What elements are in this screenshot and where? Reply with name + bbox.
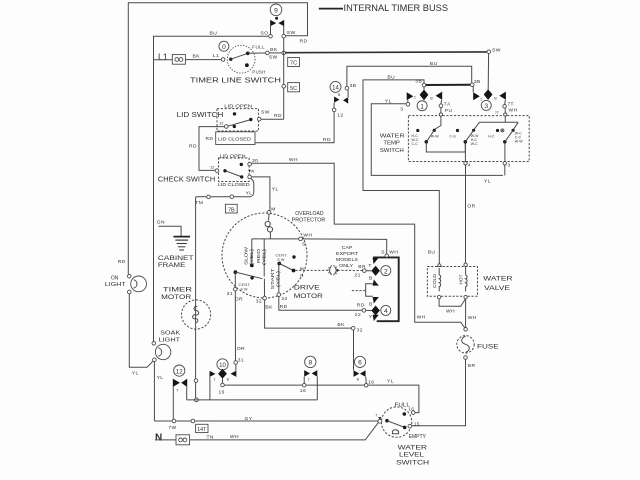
wire: vertical RD/SW wire from switch 9 down to lid switch xyxy=(283,38,285,119)
svg-text:Y: Y xyxy=(369,314,373,320)
wire: BK wire motor 32 to switch 6 xyxy=(265,300,352,328)
wire: WH neutral wire to water level switch xyxy=(190,423,379,441)
svg-text:B: B xyxy=(369,275,373,281)
svg-text:M: M xyxy=(271,207,276,213)
svg-text:31: 31 xyxy=(227,291,233,297)
wire: GY line from soak light to water level switch common xyxy=(154,416,378,431)
lamp ON LIGHT xyxy=(105,259,147,294)
wire: BU wire from inner left line to switch 9 SO terminal xyxy=(154,31,269,342)
svg-text:TN: TN xyxy=(207,434,214,440)
svg-text:SW: SW xyxy=(269,55,278,61)
winding SLOW xyxy=(244,239,255,267)
svg-text:BU: BU xyxy=(428,250,436,256)
svg-text:10: 10 xyxy=(219,363,226,369)
svg-text:SLOW: SLOW xyxy=(244,246,249,265)
svg-text:LID OPEN: LID OPEN xyxy=(220,153,246,158)
svg-text:FULL: FULL xyxy=(395,402,410,408)
label CAP EXPORT MODELS ONLY xyxy=(336,245,359,268)
label box LID CLOSED (lid switch) xyxy=(206,132,255,145)
svg-text:ON: ON xyxy=(111,275,119,281)
svg-text:YL: YL xyxy=(484,179,491,185)
temp switch unit 1 (PU) xyxy=(412,108,466,152)
svg-text:7W: 7W xyxy=(168,425,176,431)
terminal box 7B xyxy=(225,204,237,213)
svg-text:C-G: C-G xyxy=(449,134,456,138)
svg-text:RD: RD xyxy=(189,143,197,149)
svg-text:7B: 7B xyxy=(228,207,235,213)
label DRIVE MOTOR xyxy=(294,284,324,300)
svg-text:WH: WH xyxy=(509,108,518,114)
svg-text:BR: BR xyxy=(468,363,476,369)
svg-text:L1: L1 xyxy=(213,53,219,59)
svg-text:16: 16 xyxy=(368,379,374,385)
svg-text:(YEL): (YEL) xyxy=(249,248,254,265)
cent switch right xyxy=(276,254,306,278)
svg-text:WH: WH xyxy=(303,233,312,239)
wire: SW down to switch 3 xyxy=(487,54,489,90)
svg-text:OR: OR xyxy=(467,204,475,210)
svg-text:21: 21 xyxy=(355,273,361,279)
svg-text:HOT: HOT xyxy=(458,274,463,284)
overload protector xyxy=(265,207,325,239)
node S terminal of switch bank xyxy=(381,249,398,257)
svg-text:B: B xyxy=(369,301,373,307)
svg-text:LEVEL: LEVEL xyxy=(399,452,425,459)
wire: YL wire from switch 1 terminal 3 to temp switch terminal 3 xyxy=(371,99,505,185)
node L1 terminal and fuse link xyxy=(154,52,222,64)
svg-text:BR: BR xyxy=(358,264,366,270)
node TM terminal on timer motor wire xyxy=(195,195,210,206)
node 5C terminal circle xyxy=(282,84,286,88)
svg-text:2: 2 xyxy=(384,268,388,275)
wire: outer perimeter RD wire (top + left side) xyxy=(128,3,307,275)
svg-text:SW: SW xyxy=(240,287,248,291)
svg-text:16: 16 xyxy=(300,388,306,394)
svg-text:3B: 3B xyxy=(415,79,422,85)
svg-text:TEMP: TEMP xyxy=(383,141,400,147)
terminal box 14T xyxy=(196,424,208,433)
svg-text:7A: 7A xyxy=(444,102,451,108)
temp switch WH rail xyxy=(474,108,518,129)
svg-text:3B: 3B xyxy=(474,79,481,85)
capacitor dashed wire to switch 2 terminal xyxy=(295,266,362,275)
svg-text:3: 3 xyxy=(400,106,403,112)
wire: check switch W to overload M terminal xyxy=(251,177,278,211)
svg-text:YL: YL xyxy=(246,190,253,196)
svg-text:PUSH: PUSH xyxy=(252,70,265,76)
check switch xyxy=(158,153,258,187)
svg-text:BK: BK xyxy=(270,47,278,53)
water temp switch box xyxy=(408,116,529,162)
svg-text:SOAK: SOAK xyxy=(160,331,180,337)
lid switch xyxy=(177,104,284,132)
svg-text:TIMER: TIMER xyxy=(163,286,193,293)
svg-text:32: 32 xyxy=(357,328,363,334)
svg-text:W-W: W-W xyxy=(515,139,523,143)
svg-text:CAP: CAP xyxy=(342,245,353,250)
wire: YL 16 line from switch 10 to water level switch xyxy=(224,379,419,413)
wire: internal timer buss line xyxy=(286,51,488,54)
wire: check switch W curve down to timer motor line xyxy=(196,178,254,196)
timer switch 2 xyxy=(355,258,391,286)
wire: OR wire from switch 10 up to drive motor 31 xyxy=(234,291,245,371)
svg-text:12: 12 xyxy=(337,112,343,118)
svg-text:YL: YL xyxy=(385,99,392,105)
svg-text:YL: YL xyxy=(272,186,279,192)
svg-text:RD: RD xyxy=(357,303,365,309)
winding START xyxy=(270,265,288,309)
svg-text:GY: GY xyxy=(245,416,253,422)
svg-text:0: 0 xyxy=(222,44,226,51)
legend INTERNAL TIMER BUSS xyxy=(319,3,448,13)
wire: lid switch 12 terminal to check switch 12 xyxy=(189,127,225,171)
svg-text:SO: SO xyxy=(261,31,269,37)
svg-text:7C: 7C xyxy=(290,61,297,67)
svg-text:START: START xyxy=(270,268,275,289)
water level switch xyxy=(375,402,426,440)
label WATER VALVE xyxy=(483,276,513,293)
wire: YL wire soak light to 7W node on GY line xyxy=(154,362,163,422)
svg-text:L1: L1 xyxy=(158,52,168,62)
svg-text:FULL: FULL xyxy=(252,45,265,51)
svg-text:14T: 14T xyxy=(197,427,207,433)
svg-text:RD: RD xyxy=(300,39,308,45)
wire: timer motor wire down to junction xyxy=(195,197,197,400)
svg-text:BK: BK xyxy=(337,322,345,328)
svg-text:1: 1 xyxy=(420,103,424,110)
svg-text:W-W: W-W xyxy=(431,134,439,138)
svg-text:15: 15 xyxy=(414,421,420,426)
svg-text:YL: YL xyxy=(132,370,139,376)
water valve box xyxy=(427,267,477,297)
timer line switch xyxy=(219,41,286,75)
temp switch unit 3 xyxy=(488,129,523,168)
svg-text:FRAME: FRAME xyxy=(158,263,185,269)
svg-text:RED: RED xyxy=(256,249,261,263)
svg-text:BK: BK xyxy=(265,305,273,311)
svg-text:S: S xyxy=(302,242,306,248)
node motor terminal 32 xyxy=(256,279,273,311)
svg-text:DRIVE: DRIVE xyxy=(294,284,320,291)
svg-text:3B: 3B xyxy=(350,83,357,89)
svg-text:YL: YL xyxy=(387,379,394,385)
svg-text:12: 12 xyxy=(176,369,183,375)
svg-text:7T: 7T xyxy=(507,102,514,108)
svg-text:8: 8 xyxy=(308,360,312,367)
svg-text:N: N xyxy=(155,432,162,443)
svg-text:CABINET: CABINET xyxy=(158,256,194,262)
timer motor xyxy=(182,300,211,329)
svg-text:ONLY: ONLY xyxy=(339,263,353,268)
svg-text:WATER: WATER xyxy=(380,134,405,140)
node junction circle at bottom of timer motor wire xyxy=(195,398,199,402)
svg-text:MODELS: MODELS xyxy=(336,257,358,262)
svg-text:4: 4 xyxy=(468,163,471,168)
temp switch unit 2 xyxy=(449,129,479,168)
svg-text:OR: OR xyxy=(237,346,245,352)
svg-text:(YEL): (YEL) xyxy=(275,270,280,287)
wire: thick BU buss between 3B terminals of switches 1 and 3 xyxy=(426,84,471,86)
svg-text:LID CLOSED: LID CLOSED xyxy=(218,137,251,142)
svg-text:5C: 5C xyxy=(290,86,297,92)
lamp SOAK LIGHT xyxy=(152,331,181,362)
wire: OR wire from temp switch 4 to water valve HOT xyxy=(428,165,476,263)
ground cabinet frame xyxy=(157,220,190,250)
svg-text:MOTOR: MOTOR xyxy=(294,293,324,300)
svg-text:WH: WH xyxy=(389,249,398,255)
svg-text:(YEL): (YEL) xyxy=(261,248,266,265)
svg-text:CHECK SWITCH: CHECK SWITCH xyxy=(158,176,215,183)
svg-text:WATER: WATER xyxy=(483,276,513,283)
terminal box 5C xyxy=(288,83,300,92)
node terminal circle on timer motor wire xyxy=(194,379,198,383)
svg-text:W-C: W-C xyxy=(471,142,478,146)
svg-text:6: 6 xyxy=(358,360,362,367)
wire: BU wire from switch 1 3B down to water valve COLD xyxy=(363,75,439,263)
svg-text:LID OPEN: LID OPEN xyxy=(224,104,252,109)
label WATER TEMP SWITCH xyxy=(380,134,405,154)
svg-text:21: 21 xyxy=(300,273,304,277)
svg-text:MOTOR: MOTOR xyxy=(161,294,191,301)
timer switch 6 xyxy=(351,326,374,387)
timer switch 4 xyxy=(355,297,391,321)
svg-text:RD: RD xyxy=(280,304,288,310)
svg-text:SW: SW xyxy=(492,47,501,53)
svg-text:9: 9 xyxy=(274,7,278,14)
svg-text:BK: BK xyxy=(193,54,201,60)
svg-text:12: 12 xyxy=(219,121,224,126)
svg-text:22: 22 xyxy=(355,312,361,318)
timer switch 1 xyxy=(400,79,452,114)
svg-text:PU: PU xyxy=(445,108,453,114)
timer switch 3 xyxy=(470,79,517,114)
timer switch 12 xyxy=(173,365,187,421)
svg-text:PROTECTOR: PROTECTOR xyxy=(292,217,326,223)
solenoid HOT xyxy=(458,263,467,299)
drive motor xyxy=(222,213,307,298)
svg-text:RD: RD xyxy=(323,137,331,143)
svg-text:16: 16 xyxy=(219,390,225,396)
svg-text:BU: BU xyxy=(210,31,218,37)
cent switch left xyxy=(227,270,263,302)
svg-text:VALVE: VALVE xyxy=(484,285,510,292)
node N neutral terminal xyxy=(155,432,190,445)
svg-text:3: 3 xyxy=(484,103,488,110)
timer switch 9 xyxy=(261,4,296,38)
wire: valve outputs join to fuse xyxy=(439,299,477,328)
wire: WH wire from check switch 30 to fuse xyxy=(251,157,464,328)
svg-text:14: 14 xyxy=(332,86,339,92)
svg-text:SWITCH: SWITCH xyxy=(380,148,404,154)
svg-text:C-C: C-C xyxy=(412,142,419,146)
svg-text:EMPTY: EMPTY xyxy=(409,434,427,440)
svg-text:LIGHT: LIGHT xyxy=(159,338,181,344)
svg-text:INTERNAL TIMER BUSS: INTERNAL TIMER BUSS xyxy=(344,3,449,13)
svg-text:OR: OR xyxy=(235,297,243,303)
timer switch 8 xyxy=(300,356,318,400)
svg-text:WATER: WATER xyxy=(398,444,428,451)
terminal box 7C xyxy=(288,58,300,67)
svg-text:31: 31 xyxy=(238,358,244,364)
label TIMER MOTOR xyxy=(161,286,192,301)
svg-text:BU: BU xyxy=(430,61,438,67)
svg-text:BU: BU xyxy=(387,75,395,81)
svg-text:SW: SW xyxy=(277,258,285,262)
svg-text:FUSE: FUSE xyxy=(477,343,499,350)
svg-text:LID CLOSED: LID CLOSED xyxy=(218,182,250,187)
wire: BU wire from switch 14 to switch 3 terminal 3B xyxy=(347,61,472,87)
svg-text:GN: GN xyxy=(157,220,165,226)
wire: BR wire from fuse to water level EMPTY xyxy=(412,359,466,426)
svg-text:LID SWITCH: LID SWITCH xyxy=(177,112,224,119)
svg-text:SW: SW xyxy=(287,30,296,36)
wire: bottom junction wire from switch 12 to switch 8 xyxy=(187,399,318,401)
svg-text:RD: RD xyxy=(118,259,126,265)
label CABINET FRAME xyxy=(158,256,194,269)
wire: RD wire motor 22 to switch 4 terminal xyxy=(279,296,362,310)
svg-text:SW: SW xyxy=(261,110,270,116)
svg-text:S: S xyxy=(381,250,385,256)
switch bank notch contact xyxy=(352,284,373,297)
wire: RD wire from ON light down to soak light elbow xyxy=(129,294,153,377)
svg-text:OVERLOAD: OVERLOAD xyxy=(295,211,324,217)
svg-text:3: 3 xyxy=(508,163,511,168)
svg-text:RD: RD xyxy=(274,113,282,119)
fuse xyxy=(457,328,499,370)
svg-text:WH: WH xyxy=(230,434,239,440)
wire: motor internal node to S terminal xyxy=(252,233,313,248)
svg-text:COLD: COLD xyxy=(432,274,437,288)
svg-text:32: 32 xyxy=(256,299,262,305)
timer switch bank 2/4 frame xyxy=(373,257,399,321)
svg-text:22: 22 xyxy=(281,296,287,302)
svg-text:WH: WH xyxy=(417,315,426,321)
svg-text:TIMER LINE SWITCH: TIMER LINE SWITCH xyxy=(190,78,281,85)
wire: WH from motor S to switch bank S xyxy=(302,239,386,254)
svg-text:4: 4 xyxy=(384,308,388,315)
svg-text:RD: RD xyxy=(206,136,214,142)
svg-text:EXPORT: EXPORT xyxy=(336,251,359,256)
svg-text:LIGHT: LIGHT xyxy=(105,282,126,288)
node SW terminal at right end of buss xyxy=(487,47,501,53)
label WATER LEVEL SWITCH xyxy=(396,444,429,466)
svg-text:SWITCH: SWITCH xyxy=(396,459,429,466)
svg-text:T: T xyxy=(368,263,371,269)
timer switch 10 xyxy=(210,359,237,400)
svg-text:H-C: H-C xyxy=(488,134,495,138)
svg-text:YL: YL xyxy=(157,375,164,381)
svg-text:TM: TM xyxy=(195,200,203,206)
svg-text:WH: WH xyxy=(468,315,477,321)
winding RED xyxy=(256,239,266,277)
node 7B terminal on timer motor wire xyxy=(230,195,234,199)
svg-text:WH: WH xyxy=(289,157,298,163)
wire: RD wire from LID CLOSED to switch 14 terminal 12 xyxy=(255,112,334,143)
solenoid COLD xyxy=(432,263,442,299)
svg-text:12: 12 xyxy=(210,165,215,170)
timer switch 14 xyxy=(330,81,356,118)
svg-text:WH: WH xyxy=(446,308,455,314)
